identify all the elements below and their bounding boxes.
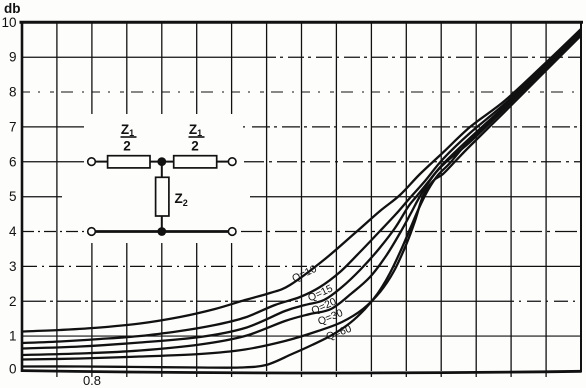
wire: bottom rail (95, 230, 228, 233)
label Q=10 (290, 263, 319, 285)
node: bottom junction (157, 227, 166, 236)
wire: shunt lower (161, 216, 163, 232)
svg-text:5: 5 (9, 189, 17, 204)
terminal: bottom-left (88, 228, 96, 236)
label Q=30 (316, 307, 345, 328)
svg-text:0: 0 (9, 362, 17, 377)
curve Q=60 (22, 36, 581, 360)
curve Q=15 (22, 31, 581, 344)
svg-text:1: 1 (9, 329, 17, 344)
curve Q=10 (22, 29, 581, 332)
label Z1/2 (left) (121, 122, 137, 154)
curve Q=20 (22, 32, 581, 349)
svg-text:8: 8 (9, 85, 17, 100)
label Q=60 (325, 323, 354, 343)
svg-text:2: 2 (123, 139, 131, 154)
grid horizontal line 6db (22, 161, 581, 163)
grid horizontal line 5db (22, 196, 581, 198)
grid vertical lines (57, 22, 546, 371)
svg-text:0.8: 0.8 (83, 373, 101, 388)
svg-text:db: db (4, 1, 21, 16)
node: top junction (157, 157, 166, 166)
grid horizontal line 4db (22, 231, 581, 233)
svg-text:10: 10 (1, 15, 16, 30)
grid horizontal line 9db (22, 56, 581, 58)
terminal: top-left (88, 158, 96, 166)
grid horizontal line 2db (22, 300, 581, 302)
impedance Z1/2 right box (174, 156, 217, 168)
grid horizontal line 3db (22, 265, 581, 267)
wire: input top lead (95, 161, 107, 163)
impedance Z2 box (156, 177, 169, 216)
svg-text:6: 6 (9, 154, 17, 169)
grid horizontal line 7db (22, 126, 581, 128)
wire: output top lead (217, 161, 229, 163)
label Z1/2 (right) (189, 122, 205, 154)
terminal: bottom-right (228, 228, 236, 236)
curve Q=30 (22, 34, 581, 355)
x-axis ticks (57, 372, 546, 377)
terminal: top-right (228, 158, 236, 166)
wire: between series boxes (150, 161, 174, 163)
label Q=15 (306, 282, 335, 304)
y-axis numbers (1, 15, 17, 377)
grid horizontal line 1db (22, 335, 581, 337)
svg-text:3: 3 (9, 259, 17, 274)
svg-text:2: 2 (191, 139, 199, 154)
svg-text:2: 2 (9, 294, 17, 309)
wire: shunt upper (161, 162, 163, 178)
svg-text:4: 4 (9, 224, 17, 239)
svg-text:9: 9 (9, 50, 17, 65)
svg-text:7: 7 (9, 119, 17, 134)
impedance Z1/2 left box (108, 156, 150, 168)
grid horizontal line 8db (22, 91, 581, 93)
circuit inset: T-network (84, 114, 241, 243)
label Q=20 (310, 296, 339, 318)
